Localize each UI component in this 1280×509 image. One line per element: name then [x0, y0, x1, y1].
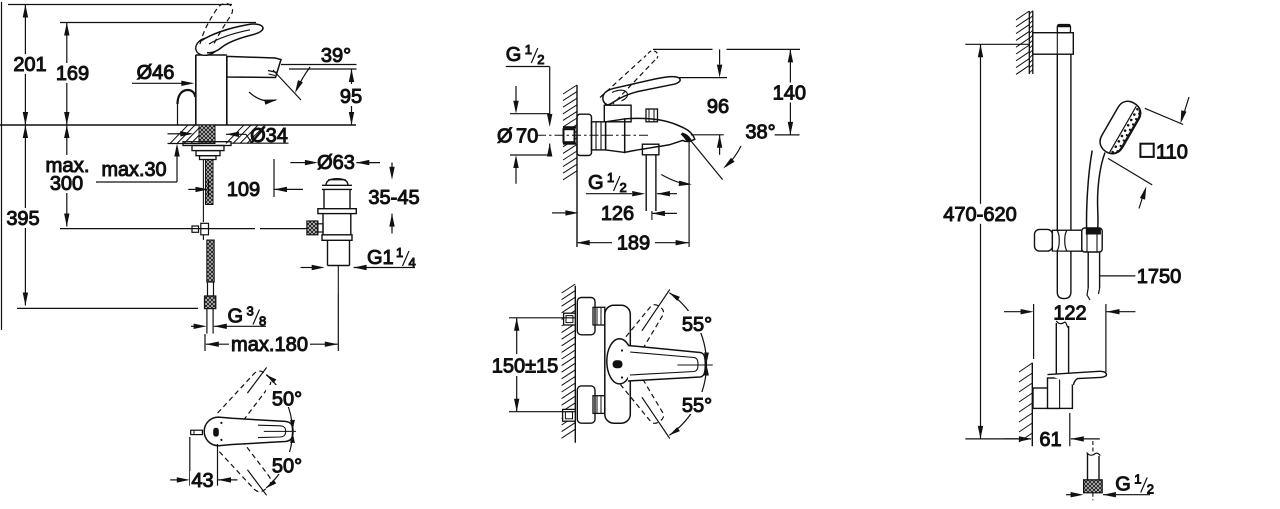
svg-text:395: 395 — [6, 208, 39, 230]
svg-text:470-620: 470-620 — [943, 204, 1016, 226]
svg-text:50°: 50° — [272, 456, 302, 478]
svg-text:1: 1 — [396, 245, 403, 260]
svg-text:189: 189 — [617, 233, 650, 255]
svg-text:140: 140 — [773, 83, 806, 105]
svg-text:4: 4 — [409, 255, 416, 270]
svg-text:61: 61 — [1039, 429, 1061, 451]
svg-text:G: G — [1115, 474, 1131, 496]
svg-text:126: 126 — [601, 203, 634, 225]
svg-text:1: 1 — [525, 42, 532, 57]
svg-text:G: G — [588, 172, 604, 194]
svg-text:Ø: Ø — [497, 126, 513, 148]
svg-text:70: 70 — [516, 126, 538, 148]
svg-text:Ø46: Ø46 — [137, 62, 175, 84]
svg-text:122: 122 — [1053, 303, 1086, 325]
svg-text:G: G — [228, 306, 244, 328]
svg-text:2: 2 — [1147, 482, 1154, 497]
svg-text:150±15: 150±15 — [492, 356, 559, 378]
svg-text:38°: 38° — [745, 122, 775, 144]
svg-text:55°: 55° — [682, 395, 712, 417]
svg-text:50°: 50° — [272, 389, 302, 411]
svg-text:Ø63: Ø63 — [317, 152, 355, 174]
svg-text:110: 110 — [1156, 142, 1188, 164]
svg-text:8: 8 — [259, 314, 266, 329]
svg-text:1: 1 — [607, 170, 614, 185]
svg-text:35-45: 35-45 — [368, 187, 419, 209]
svg-text:2: 2 — [620, 180, 627, 195]
svg-text:39°: 39° — [321, 45, 351, 67]
svg-text:max.180: max.180 — [231, 334, 308, 356]
svg-text:95: 95 — [340, 86, 362, 108]
svg-text:G: G — [506, 44, 522, 66]
svg-text:G1: G1 — [367, 247, 394, 269]
svg-text:1750: 1750 — [1137, 266, 1182, 288]
svg-text:55°: 55° — [682, 314, 712, 336]
svg-text:1: 1 — [1134, 472, 1141, 487]
svg-text:2: 2 — [537, 52, 544, 67]
svg-text:201: 201 — [13, 54, 46, 76]
svg-text:Ø34: Ø34 — [250, 125, 288, 147]
svg-text:max.30: max.30 — [102, 159, 167, 181]
svg-text:169: 169 — [56, 63, 89, 85]
svg-text:3: 3 — [247, 304, 254, 319]
svg-text:96: 96 — [707, 96, 729, 118]
svg-text:43: 43 — [191, 470, 213, 492]
svg-text:300: 300 — [50, 173, 83, 195]
svg-text:109: 109 — [227, 179, 260, 201]
